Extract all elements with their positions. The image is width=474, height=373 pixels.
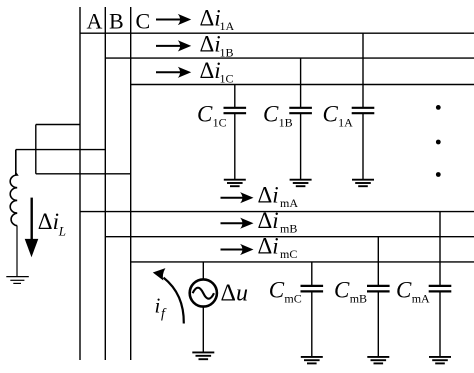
wire line mB xyxy=(105,236,474,238)
svg-text:Δu: Δu xyxy=(221,280,248,306)
svg-text:C: C xyxy=(263,101,279,126)
label di1B xyxy=(200,32,234,60)
arrow dimA xyxy=(221,192,254,203)
label dimB xyxy=(258,208,298,236)
label C1A xyxy=(323,101,354,129)
wire line 1A xyxy=(80,32,474,34)
svg-text:i: i xyxy=(155,293,161,317)
svg-text:Δi: Δi xyxy=(258,208,279,233)
arrow di1B xyxy=(156,40,191,51)
capacitor C1B xyxy=(289,58,312,180)
svg-text:Δi: Δi xyxy=(200,32,221,57)
svg-text:Δi: Δi xyxy=(38,209,59,234)
wire line mA xyxy=(80,211,474,213)
arrow di1A xyxy=(156,14,191,25)
capacitor CmA xyxy=(429,212,452,357)
wire tap C xyxy=(36,173,131,175)
svg-text:C: C xyxy=(396,278,412,303)
svg-text:C: C xyxy=(323,101,339,126)
capacitor CmC xyxy=(301,262,324,357)
ground of source xyxy=(192,352,214,359)
arrow diL xyxy=(25,198,39,258)
label CmA xyxy=(396,278,430,306)
svg-text:mB: mB xyxy=(350,292,367,306)
capacitor C1C xyxy=(224,85,247,180)
svg-text:1C: 1C xyxy=(213,116,227,130)
svg-text:1C: 1C xyxy=(220,72,234,86)
source du xyxy=(190,262,217,352)
svg-text:1A: 1A xyxy=(338,116,353,130)
bus B xyxy=(104,7,106,360)
label C1C xyxy=(197,101,227,129)
capacitor CmB xyxy=(367,237,390,357)
ground of CmA xyxy=(429,357,451,364)
label if xyxy=(155,293,168,321)
svg-text:Δi: Δi xyxy=(200,5,221,30)
label C1B xyxy=(263,101,293,129)
bus A xyxy=(79,7,81,360)
svg-text:C: C xyxy=(334,278,350,303)
wire tap B xyxy=(16,150,106,175)
svg-text:Δi: Δi xyxy=(200,58,221,83)
wire line mC xyxy=(131,261,474,263)
svg-text:1A: 1A xyxy=(220,19,235,33)
wire line 1B xyxy=(105,57,474,59)
svg-text:C: C xyxy=(197,101,213,126)
svg-text:mA: mA xyxy=(412,292,430,306)
arrow dimB xyxy=(221,218,254,229)
bus C xyxy=(130,7,132,360)
svg-text:C: C xyxy=(269,278,285,303)
svg-text:mC: mC xyxy=(280,247,297,261)
arrow if xyxy=(153,268,184,323)
label di1A xyxy=(200,5,235,33)
label CmC xyxy=(269,278,302,306)
ellipsis dots xyxy=(436,105,441,177)
ground of CmC xyxy=(301,357,323,364)
label dimA xyxy=(258,182,299,210)
arrow di1C xyxy=(156,67,191,78)
svg-text:A: A xyxy=(87,9,103,34)
arrow dimC xyxy=(221,244,254,255)
svg-text:Δi: Δi xyxy=(258,233,279,258)
label di1C xyxy=(200,58,234,86)
svg-text:B: B xyxy=(109,9,124,34)
ground of CmB xyxy=(367,357,389,364)
label dimC xyxy=(258,233,298,260)
wire line 1C xyxy=(131,84,474,86)
inductor L xyxy=(10,173,17,277)
svg-text:mA: mA xyxy=(280,196,298,210)
label CmB xyxy=(334,278,367,306)
ground of C1C xyxy=(224,180,246,187)
svg-text:1B: 1B xyxy=(279,116,293,130)
svg-text:mB: mB xyxy=(280,221,297,235)
ground of L xyxy=(6,277,29,284)
svg-text:L: L xyxy=(58,223,66,238)
ground of C1A xyxy=(352,180,374,187)
svg-text:mC: mC xyxy=(284,292,301,306)
label diL xyxy=(38,209,66,238)
svg-text:1B: 1B xyxy=(220,45,234,59)
ground of C1B xyxy=(290,180,312,187)
wire tap A xyxy=(36,125,80,174)
svg-text:C: C xyxy=(136,9,151,34)
svg-text:Δi: Δi xyxy=(258,182,279,207)
capacitor C1A xyxy=(352,33,375,180)
